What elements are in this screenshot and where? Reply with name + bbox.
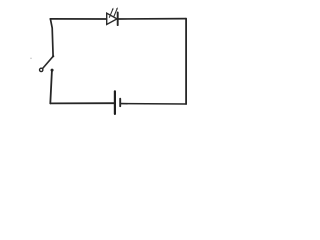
wire bottom-left segment (50, 102, 114, 104)
wire top-left segment (50, 18, 106, 20)
wire top-right segment (119, 18, 186, 20)
battery positive long plate (114, 91, 116, 114)
scan speck (30, 58, 32, 60)
switch open terminal circle (40, 68, 43, 71)
switch lever (43, 55, 55, 68)
LED D1 triangle (107, 13, 117, 24)
battery negative short plate (119, 99, 121, 107)
LED D1 cathode bar (117, 12, 119, 25)
LED light arrow 1 (109, 8, 113, 18)
LED light arrow 2 (114, 7, 118, 17)
wire bottom-right segment (121, 103, 186, 105)
wire left lower side (50, 71, 52, 103)
switch junction dot (lower terminal) (51, 69, 54, 72)
wire left upper side (50, 19, 53, 56)
wire right side (185, 19, 187, 104)
